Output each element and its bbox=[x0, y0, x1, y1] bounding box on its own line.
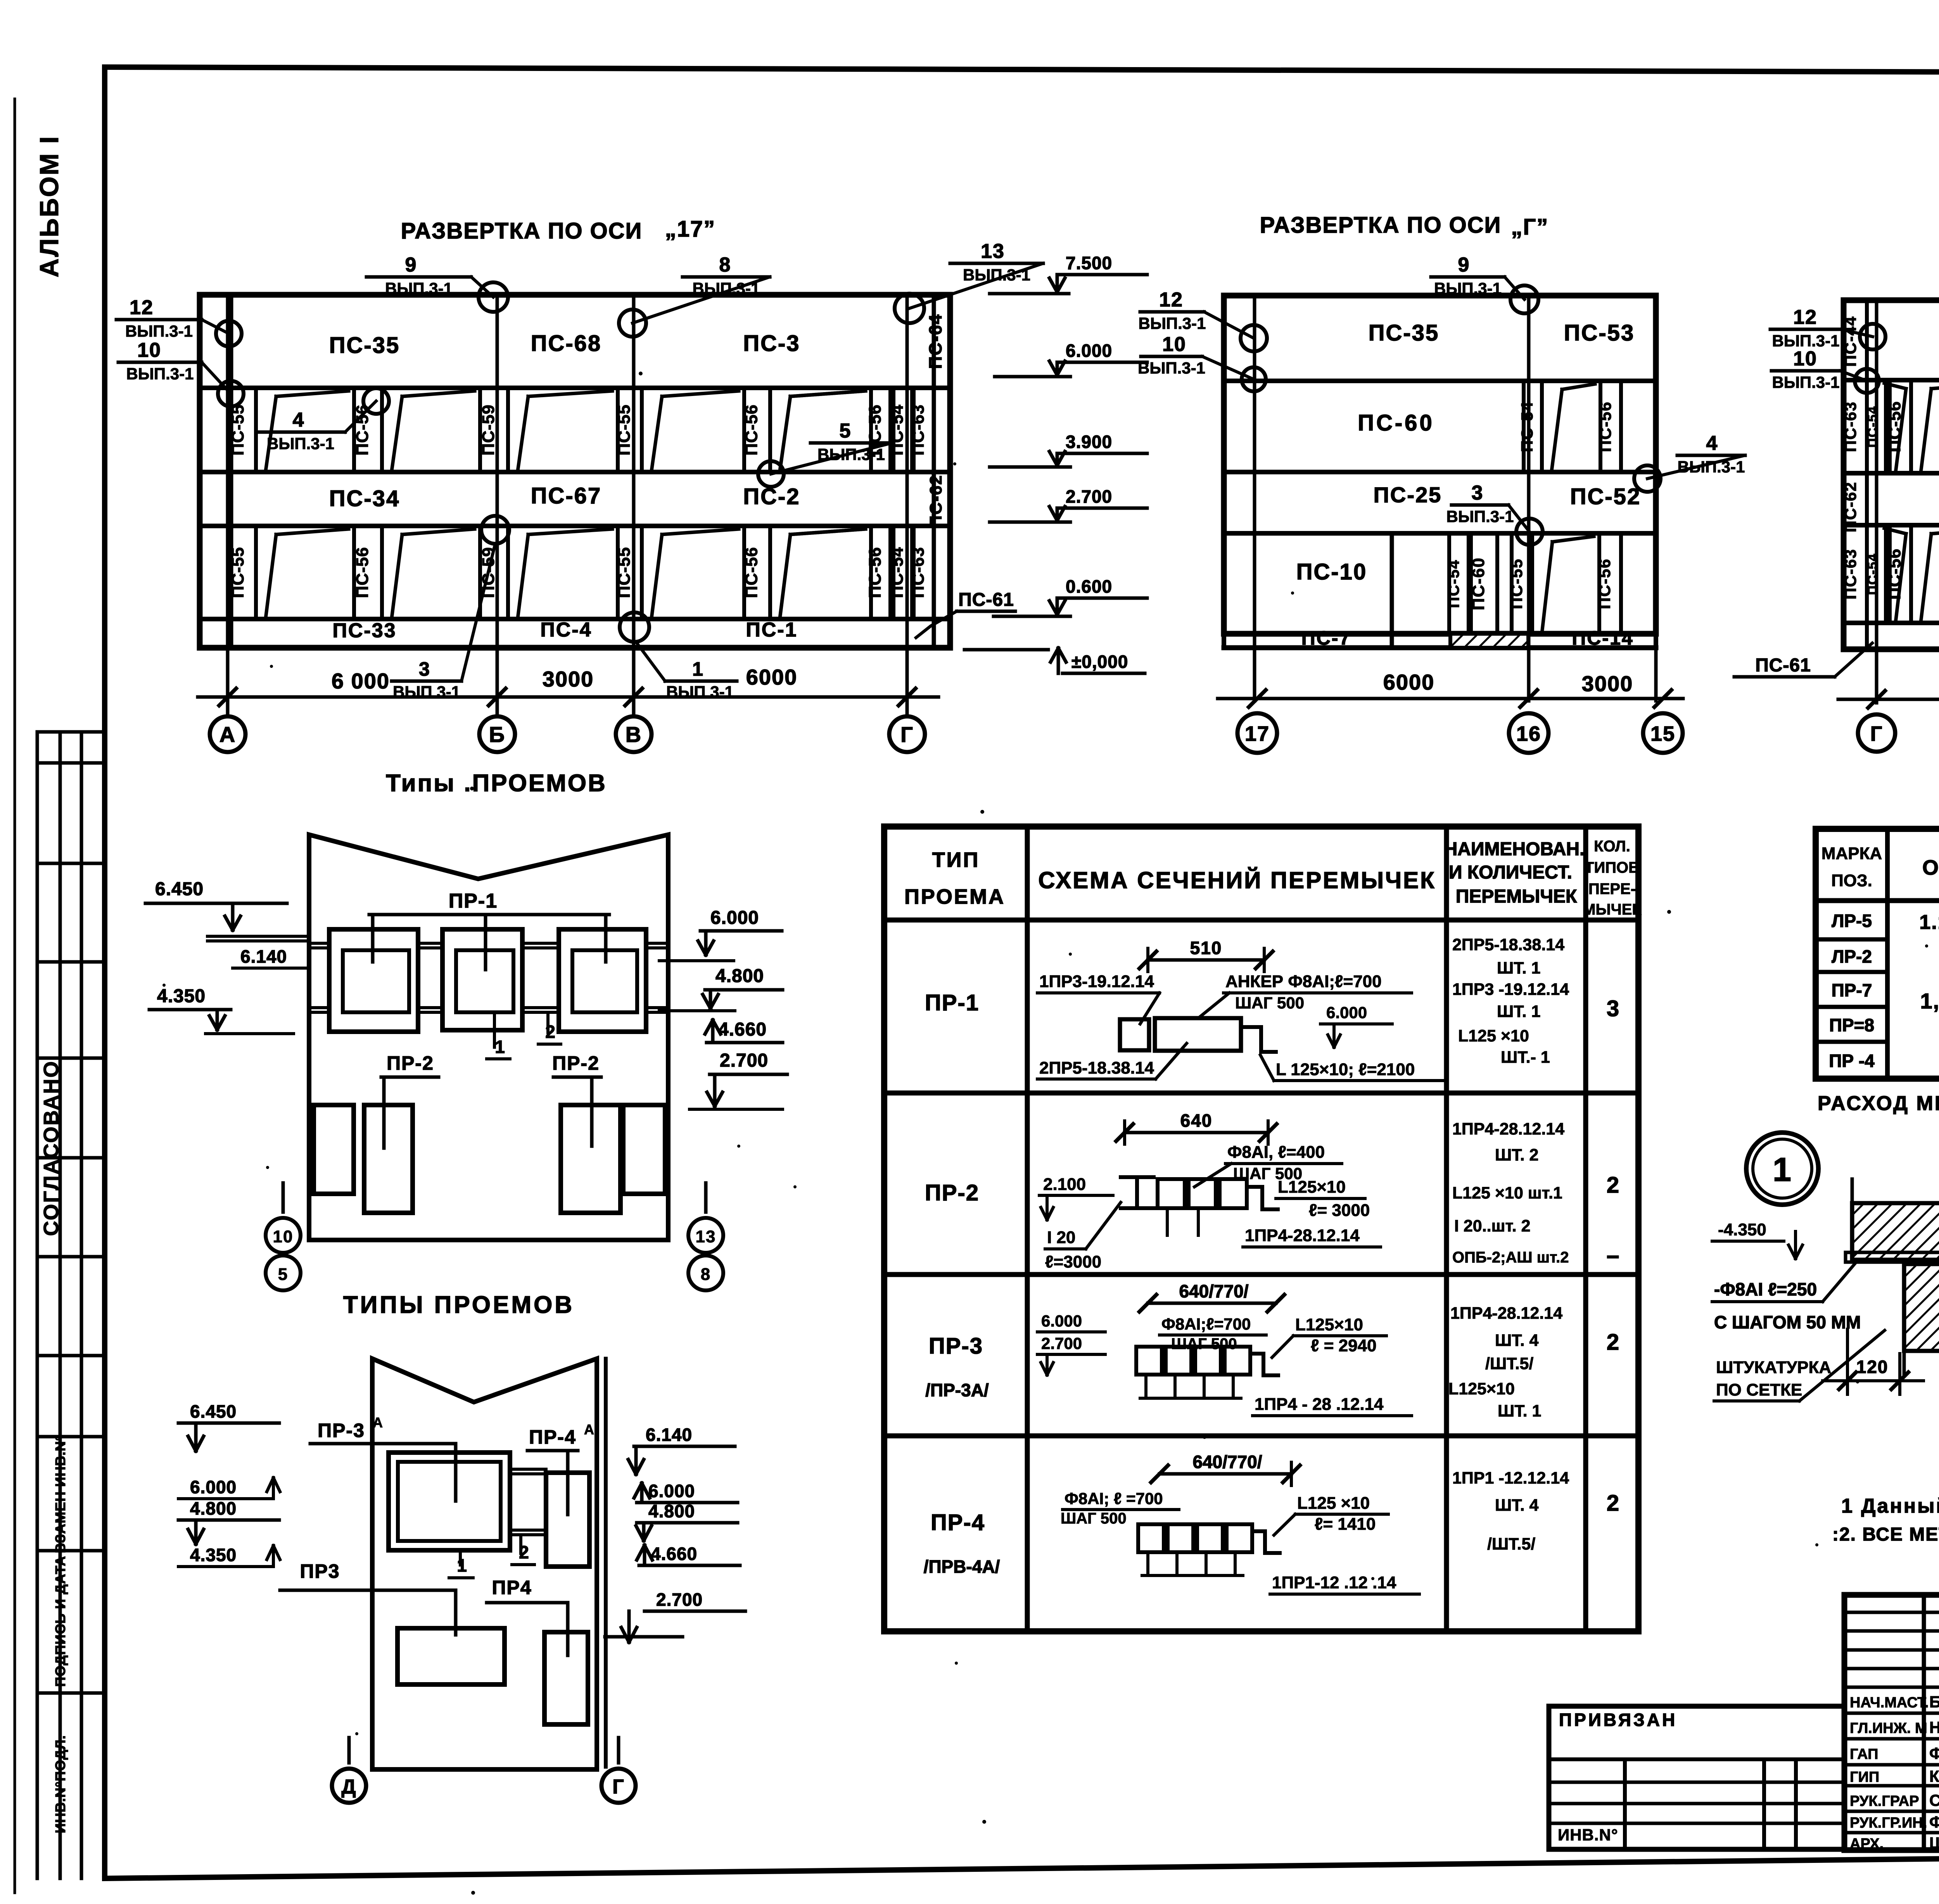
svg-text:ℓ= 3000: ℓ= 3000 bbox=[1309, 1201, 1370, 1220]
svg-text:ШТ. 1: ШТ. 1 bbox=[1498, 1402, 1541, 1420]
svg-text:ОПБ-2;АШ шт.2: ОПБ-2;АШ шт.2 bbox=[1452, 1249, 1569, 1266]
svg-text:КИРЮШКИН: КИРЮШКИН bbox=[1929, 1767, 1939, 1785]
svg-text:РАЗВЕРТКА ПО ОСИ: РАЗВЕРТКА ПО ОСИ bbox=[1260, 213, 1502, 238]
svg-text:АЛЬБОМ I: АЛЬБОМ I bbox=[35, 135, 64, 278]
door opening 1 bbox=[314, 1105, 354, 1194]
svg-text:10: 10 bbox=[1793, 348, 1817, 370]
svg-text:ШТ. 4: ШТ. 4 bbox=[1495, 1496, 1539, 1515]
svg-text:−: − bbox=[1606, 1244, 1620, 1269]
svg-text:ШТ.- 1: ШТ.- 1 bbox=[1501, 1048, 1550, 1067]
level lines 6.140 bbox=[207, 935, 308, 938]
specification table columns bbox=[1885, 829, 1890, 1079]
svg-text:Г: Г bbox=[900, 722, 914, 747]
svg-text:ПРОЕМА: ПРОЕМА bbox=[904, 885, 1005, 908]
svg-text:ПС-52: ПС-52 bbox=[1570, 484, 1641, 509]
svg-text:ПС-55: ПС-55 bbox=[228, 547, 247, 598]
svg-text:ПР-1: ПР-1 bbox=[449, 890, 498, 912]
svg-text:ПС-56: ПС-56 bbox=[742, 405, 761, 456]
svg-text:ПР-1: ПР-1 bbox=[925, 990, 979, 1015]
panel strip ПС-56 story2 bbox=[869, 388, 873, 472]
svg-text:ПС-61: ПС-61 bbox=[958, 590, 1014, 610]
svg-text:ШАГ 500: ШАГ 500 bbox=[1171, 1335, 1237, 1352]
panel strip ПС-59 story2 bbox=[478, 388, 482, 472]
panel strip left ПС-44 bbox=[1865, 300, 1869, 649]
ПР-2 dim 640 bbox=[1125, 1131, 1268, 1134]
window bay mark bbox=[1921, 534, 1931, 619]
svg-text:ВЗАМЕН ИНВ.N°: ВЗАМЕН ИНВ.N° bbox=[52, 1435, 68, 1553]
svg-text:1ПР4-28.12.14: 1ПР4-28.12.14 bbox=[1450, 1304, 1562, 1323]
svg-text:16: 16 bbox=[1516, 722, 1541, 745]
svg-text:3: 3 bbox=[419, 658, 430, 680]
svg-text:1ПР4-28.12.14: 1ПР4-28.12.14 bbox=[1245, 1226, 1360, 1245]
svg-text:ПС-53: ПС-53 bbox=[1564, 320, 1635, 346]
panel strip ПС-55 story1 bbox=[616, 526, 620, 619]
axis circle В bbox=[616, 716, 652, 752]
axis circle Г bbox=[889, 716, 925, 752]
svg-text:ВЫП.3-1: ВЫП.3-1 bbox=[1434, 279, 1502, 297]
svg-text:L125×10: L125×10 bbox=[1448, 1380, 1515, 1398]
window bay mark bbox=[780, 534, 790, 615]
svg-text:ПР-3: ПР-3 bbox=[929, 1333, 983, 1359]
panel strip ПС-55 story2 bbox=[229, 388, 233, 472]
svg-text:12: 12 bbox=[130, 296, 154, 319]
svg-text:2.700: 2.700 bbox=[720, 1050, 768, 1071]
ПР-4 dim 640/770 bbox=[1160, 1472, 1291, 1476]
svg-text:Ф8АI; ℓ =700: Ф8АI; ℓ =700 bbox=[1065, 1489, 1163, 1508]
svg-text:2ПР5-18.38.14: 2ПР5-18.38.14 bbox=[1452, 936, 1564, 954]
window bay mark bbox=[1552, 389, 1562, 468]
svg-text:ФРЕЙМАН: ФРЕЙМАН bbox=[1929, 1812, 1939, 1831]
svg-text:13: 13 bbox=[696, 1227, 716, 1246]
svg-text:ПР-4: ПР-4 bbox=[529, 1426, 576, 1448]
svg-text:ШАГ 500: ШАГ 500 bbox=[1235, 994, 1304, 1012]
svg-text:ПС-54: ПС-54 bbox=[1865, 406, 1880, 448]
door opening 3 bbox=[561, 1105, 620, 1213]
lintel lines bbox=[310, 942, 329, 945]
svg-text:ПС-60: ПС-60 bbox=[1469, 557, 1488, 610]
axis line Г bbox=[1875, 300, 1879, 703]
svg-text:10: 10 bbox=[137, 339, 161, 361]
svg-text:ПС-62: ПС-62 bbox=[1841, 481, 1860, 532]
svg-text:4.350: 4.350 bbox=[190, 1545, 237, 1565]
axis line А bbox=[226, 295, 230, 717]
axis tick 10/5 bbox=[282, 1183, 285, 1212]
svg-text:ПС-59: ПС-59 bbox=[479, 405, 498, 456]
elevation 2 bottom band bbox=[1224, 631, 1392, 636]
panel strip ПС-56 story2 bbox=[1888, 380, 1892, 473]
svg-text:1: 1 bbox=[457, 1555, 468, 1575]
svg-text:13: 13 bbox=[981, 240, 1005, 263]
svg-text:ТИПОВ: ТИПОВ bbox=[1585, 859, 1640, 876]
panel strip ПС-60 story1 bbox=[1469, 533, 1473, 634]
svg-text:1ПР1 -12.12.14: 1ПР1 -12.12.14 bbox=[1452, 1469, 1569, 1487]
svg-text:ЛР-5: ЛР-5 bbox=[1832, 911, 1872, 931]
svg-text:ПОЗ.: ПОЗ. bbox=[1831, 871, 1872, 890]
svg-text:6000: 6000 bbox=[1383, 670, 1435, 694]
svg-text:2ПР5-18.38.14: 2ПР5-18.38.14 bbox=[1039, 1058, 1154, 1077]
svg-text:ПР-3: ПР-3 bbox=[318, 1420, 365, 1441]
svg-text:ВЫП.3-1: ВЫП.3-1 bbox=[1138, 359, 1205, 377]
svg-text:ПС-25: ПС-25 bbox=[1374, 482, 1442, 507]
panel strip ПС-54 story1 bbox=[1447, 533, 1451, 634]
axis circle Г bbox=[601, 1769, 636, 1803]
window bay mark bbox=[1896, 389, 1906, 469]
svg-text:2.100: 2.100 bbox=[1043, 1175, 1086, 1194]
svg-text:ПС-61: ПС-61 bbox=[1755, 655, 1811, 676]
svg-text:6.000: 6.000 bbox=[648, 1481, 695, 1501]
svg-text:ПО СЕТКЕ: ПО СЕТКЕ bbox=[1716, 1380, 1802, 1399]
svg-text:/ПРВ-4А/: /ПРВ-4А/ bbox=[924, 1556, 1000, 1577]
svg-text:ПР-2: ПР-2 bbox=[552, 1052, 600, 1074]
svg-text:2.700: 2.700 bbox=[656, 1589, 703, 1610]
svg-text:ГАП: ГАП bbox=[1850, 1746, 1878, 1762]
window bay mark bbox=[780, 534, 790, 615]
svg-text:Ф8АI;ℓ=700: Ф8АI;ℓ=700 bbox=[1161, 1315, 1251, 1333]
svg-text:6 000: 6 000 bbox=[332, 669, 390, 693]
svg-text:ПС-63: ПС-63 bbox=[1841, 548, 1860, 599]
svg-text:6.000: 6.000 bbox=[1326, 1003, 1367, 1022]
axis line Г bbox=[906, 295, 909, 717]
detail circle 1 bbox=[1746, 1133, 1818, 1205]
svg-text:ПС-55: ПС-55 bbox=[228, 405, 247, 456]
svg-text:6.450: 6.450 bbox=[155, 879, 204, 899]
window bay mark bbox=[518, 396, 528, 468]
svg-text:А: А bbox=[373, 1415, 384, 1430]
svg-text:ИНВ.N°ПОДЛ.: ИНВ.N°ПОДЛ. bbox=[52, 1735, 68, 1833]
svg-text:ВЫП.3-1: ВЫП.3-1 bbox=[267, 434, 334, 453]
svg-text:6.000: 6.000 bbox=[190, 1477, 237, 1497]
svg-text:АРХ.: АРХ. bbox=[1850, 1836, 1884, 1852]
svg-text:ПС-55: ПС-55 bbox=[615, 547, 634, 598]
svg-text:6.000: 6.000 bbox=[1066, 341, 1112, 361]
window bay mark bbox=[1896, 534, 1906, 619]
panel strip ПС-63 story2 bbox=[912, 388, 916, 472]
привязан box bbox=[1549, 1706, 1844, 1849]
panel strip ПС-54 story2 bbox=[1522, 381, 1526, 472]
axis circle 10 bbox=[266, 1218, 301, 1253]
svg-text:1ПР4 - 28 .12.14: 1ПР4 - 28 .12.14 bbox=[1255, 1395, 1384, 1414]
svg-text:640: 640 bbox=[1180, 1110, 1213, 1131]
svg-text:ВЫП.3-1: ВЫП.3-1 bbox=[1446, 507, 1514, 526]
svg-text:ПС-67: ПС-67 bbox=[531, 483, 601, 508]
panel strip ПС-63 story1 bbox=[912, 526, 916, 619]
svg-text:АНКЕР Ф8АI;ℓ=700: АНКЕР Ф8АI;ℓ=700 bbox=[1225, 972, 1382, 991]
svg-text:6.140: 6.140 bbox=[646, 1425, 692, 1445]
axis circle Г bbox=[1858, 714, 1895, 752]
svg-text:ПР3: ПР3 bbox=[300, 1560, 340, 1582]
svg-text:ПС-56: ПС-56 bbox=[1595, 558, 1614, 609]
specification table frame bbox=[1816, 829, 1939, 1079]
lintel table frame bbox=[884, 827, 1638, 1631]
detail 1 shelf plate bbox=[1846, 1252, 1939, 1262]
window ПР-1 no.3 bbox=[559, 929, 646, 1032]
svg-text:5: 5 bbox=[840, 420, 852, 442]
title block verticals bbox=[1922, 1595, 1926, 1850]
axis line Б bbox=[496, 295, 499, 717]
svg-text:4.660: 4.660 bbox=[651, 1544, 697, 1564]
elevation 1 outline bbox=[200, 295, 950, 648]
svg-text:L125 ×10 шт.1: L125 ×10 шт.1 bbox=[1452, 1184, 1562, 1202]
ПР-3 dim 640/770 bbox=[1148, 1302, 1276, 1305]
window bay mark bbox=[392, 534, 402, 615]
axis line 16 bbox=[1527, 296, 1531, 701]
lower rect right bbox=[544, 1632, 588, 1724]
svg-text:ПС-1: ПС-1 bbox=[746, 619, 797, 641]
svg-text:ПР=8: ПР=8 bbox=[1829, 1015, 1874, 1035]
svg-text:ПЕРЕМЫЧЕК: ПЕРЕМЫЧЕК bbox=[1456, 886, 1577, 907]
svg-text:8: 8 bbox=[719, 254, 731, 276]
svg-text:120: 120 bbox=[1856, 1357, 1889, 1377]
svg-text:6000: 6000 bbox=[746, 665, 798, 689]
svg-text:ЛР-2: ЛР-2 bbox=[1832, 946, 1872, 967]
svg-text:ПС-62: ПС-62 bbox=[926, 475, 945, 528]
svg-text:ВЫП.3-1: ВЫП.3-1 bbox=[1138, 314, 1206, 332]
svg-text:1 Данный лист смотри совмес: 1 Данный лист смотри совместно с листами… bbox=[1841, 1495, 1939, 1517]
dimension line elevation 1 bbox=[198, 695, 938, 699]
svg-text:Б: Б bbox=[489, 722, 505, 747]
panel strip ПС-55 story1 bbox=[1510, 533, 1514, 634]
svg-text:±0,000: ±0,000 bbox=[1071, 652, 1128, 672]
svg-text:В: В bbox=[626, 722, 642, 747]
svg-text:3: 3 bbox=[1607, 996, 1620, 1021]
sheet outer edge left bbox=[14, 99, 16, 1893]
ПР-2 beam I20 section bbox=[1121, 1175, 1154, 1179]
svg-text:ПС-54: ПС-54 bbox=[888, 547, 907, 598]
svg-text:ГИП: ГИП bbox=[1850, 1769, 1879, 1785]
svg-text:ПР-7: ПР-7 bbox=[1832, 980, 1872, 1000]
svg-text:ПС-54: ПС-54 bbox=[1865, 553, 1880, 595]
svg-text:6.000: 6.000 bbox=[1041, 1312, 1082, 1330]
svg-text:С ШАГОМ 50 ММ: С ШАГОМ 50 ММ bbox=[1714, 1312, 1861, 1332]
svg-text:СОКОЛОВА: СОКОЛОВА bbox=[1929, 1791, 1939, 1809]
svg-text:10: 10 bbox=[1162, 333, 1186, 356]
detail 1 hatched wall lower bbox=[1904, 1264, 1939, 1351]
window bay mark bbox=[1542, 542, 1552, 630]
window bay mark bbox=[780, 396, 790, 468]
svg-text:СХЕМА СЕЧЕНИЙ ПЕРЕМЫЧЕК: СХЕМА СЕЧЕНИЙ ПЕРЕМЫЧЕК bbox=[1038, 867, 1436, 893]
axis tick Д bbox=[347, 1738, 351, 1763]
panel strip ПС-54 story1 bbox=[892, 526, 895, 619]
svg-text:Г: Г bbox=[1870, 722, 1883, 745]
panel strip ПС-56 story1 bbox=[352, 526, 356, 619]
svg-text:ШАГ 500: ШАГ 500 bbox=[1061, 1510, 1127, 1527]
door opening 2 bbox=[364, 1105, 413, 1213]
svg-text:ВЫП.3-1: ВЫП.3-1 bbox=[963, 266, 1030, 284]
elevation 1 left end column bbox=[229, 295, 233, 648]
window bay mark bbox=[652, 534, 662, 615]
window bay mark bbox=[518, 534, 528, 615]
svg-text:„17”: „17” bbox=[665, 216, 716, 242]
svg-text:ПС-54: ПС-54 bbox=[1518, 401, 1536, 452]
svg-text:ПС-10: ПС-10 bbox=[1296, 559, 1367, 585]
axis circle Д bbox=[332, 1769, 366, 1803]
svg-text:ПР-2: ПР-2 bbox=[925, 1180, 979, 1205]
margin column lines bbox=[36, 732, 39, 1878]
svg-text:6.450: 6.450 bbox=[190, 1401, 237, 1422]
svg-text:-4.350: -4.350 bbox=[1718, 1220, 1766, 1239]
detail 1 dim 120 bbox=[1846, 1329, 1849, 1394]
svg-text:ВЫП.3-1: ВЫП.3-1 bbox=[125, 322, 193, 340]
svg-text:ШТ. 1: ШТ. 1 bbox=[1497, 1002, 1540, 1021]
axis circle 15 bbox=[1643, 713, 1683, 753]
svg-text:ОБОЗНАЧЕНЦЕ: ОБОЗНАЧЕНЦЕ bbox=[1922, 856, 1939, 879]
svg-text:ПС-60: ПС-60 bbox=[1358, 410, 1434, 436]
svg-text:РАЗВЕРТКА ПО ОСИ: РАЗВЕРТКА ПО ОСИ bbox=[401, 218, 643, 244]
svg-text:МЫЧЕК: МЫЧЕК bbox=[1583, 901, 1642, 918]
panel strip ПС-56 story2 bbox=[742, 388, 746, 472]
svg-text:ИНВ.N°: ИНВ.N° bbox=[1558, 1826, 1618, 1844]
svg-text:ШИШКОВА: ШИШКОВА bbox=[1929, 1834, 1939, 1852]
dimension line elevation 2 bbox=[1218, 697, 1683, 700]
svg-text:9: 9 bbox=[405, 254, 417, 276]
elevation 3 outline bbox=[1844, 300, 1939, 649]
axis circle 13 bbox=[688, 1218, 723, 1253]
svg-text:ШТ. 2: ШТ. 2 bbox=[1495, 1146, 1538, 1164]
svg-text:ПС-55: ПС-55 bbox=[615, 405, 634, 456]
svg-text:ПС-44: ПС-44 bbox=[1841, 316, 1860, 367]
door opening 4 bbox=[623, 1105, 665, 1194]
ПР-1 dim 510 bbox=[1148, 958, 1264, 962]
svg-text:ПС-14: ПС-14 bbox=[1572, 627, 1633, 649]
svg-text:1ПР4-28.12.14: 1ПР4-28.12.14 bbox=[1452, 1120, 1564, 1138]
svg-text:-Ф8АI ℓ=250: -Ф8АI ℓ=250 bbox=[1714, 1279, 1817, 1299]
svg-text:ПС-3: ПС-3 bbox=[743, 331, 800, 356]
svg-text:ПС-54: ПС-54 bbox=[1445, 559, 1462, 608]
svg-text:ВЫП.3-1: ВЫП.3-1 bbox=[1772, 373, 1839, 391]
svg-text:/ШТ.5/: /ШТ.5/ bbox=[1487, 1535, 1535, 1553]
svg-text:ПС-35: ПС-35 bbox=[329, 333, 400, 358]
svg-text:ПС-4: ПС-4 bbox=[540, 619, 592, 641]
svg-text:3: 3 bbox=[1472, 482, 1484, 504]
svg-text:1: 1 bbox=[1773, 1151, 1792, 1188]
svg-text:640/770/: 640/770/ bbox=[1192, 1452, 1262, 1472]
svg-text:/ШТ.5/: /ШТ.5/ bbox=[1485, 1354, 1533, 1373]
panel strip ПС-56 story1 bbox=[869, 526, 873, 619]
svg-text:А: А bbox=[584, 1422, 595, 1437]
svg-text:9: 9 bbox=[1458, 254, 1470, 276]
svg-text:ПЕРЕ-: ПЕРЕ- bbox=[1588, 880, 1636, 898]
svg-text:6.140: 6.140 bbox=[240, 946, 287, 967]
svg-text:ФИЛИППОВ: ФИЛИППОВ bbox=[1929, 1744, 1939, 1762]
svg-text:2: 2 bbox=[1607, 1172, 1620, 1198]
lower rect center bbox=[397, 1628, 505, 1684]
svg-text:3.900: 3.900 bbox=[1066, 432, 1112, 452]
svg-text:ℓ=3000: ℓ=3000 bbox=[1045, 1252, 1101, 1271]
svg-text:17: 17 bbox=[1245, 722, 1270, 745]
svg-text:640/770/: 640/770/ bbox=[1179, 1281, 1248, 1301]
svg-text:ВЫП.3-1: ВЫП.3-1 bbox=[1677, 458, 1745, 476]
window ПР-1 no.1 bbox=[329, 929, 418, 1032]
svg-text:1: 1 bbox=[692, 658, 704, 680]
svg-text:4: 4 bbox=[1706, 432, 1718, 455]
svg-text:ПС-64: ПС-64 bbox=[925, 314, 945, 369]
axis line 15 bbox=[1654, 648, 1658, 701]
svg-text:6.000: 6.000 bbox=[710, 908, 759, 928]
sheet frame bbox=[105, 67, 1939, 74]
svg-text:7.500: 7.500 bbox=[1066, 253, 1112, 273]
svg-text:1,138-10: 1,138-10 bbox=[1920, 989, 1939, 1013]
panel strip ПС-55 story2 bbox=[616, 388, 620, 472]
svg-text:L125×10: L125×10 bbox=[1278, 1178, 1346, 1197]
svg-text:МАРКА: МАРКА bbox=[1821, 844, 1882, 863]
opening types plan 2 outline bbox=[372, 1359, 597, 1769]
svg-text:4: 4 bbox=[293, 409, 305, 431]
svg-text:ПРИВЯЗАН: ПРИВЯЗАН bbox=[1559, 1710, 1677, 1730]
svg-text:4.800: 4.800 bbox=[190, 1498, 237, 1518]
svg-text:ПС-56: ПС-56 bbox=[866, 547, 885, 598]
svg-text:СОГЛАСОВАНО: СОГЛАСОВАНО bbox=[40, 1060, 63, 1236]
svg-text:И КОЛИЧЕСТ.: И КОЛИЧЕСТ. bbox=[1449, 862, 1572, 883]
svg-text:0.600: 0.600 bbox=[1066, 576, 1112, 597]
dimension line elevation 3 bbox=[1838, 698, 1939, 701]
svg-text:ПС-63: ПС-63 bbox=[909, 405, 928, 456]
svg-text:ПС-55: ПС-55 bbox=[1507, 558, 1526, 609]
svg-text:5: 5 bbox=[278, 1265, 288, 1284]
svg-text:ПОДПИСЬ И ДАТА: ПОДПИСЬ И ДАТА bbox=[52, 1556, 68, 1687]
svg-text:/ПР-3А/: /ПР-3А/ bbox=[925, 1380, 989, 1400]
svg-text:ПС-56: ПС-56 bbox=[742, 547, 761, 598]
lintel lines bbox=[510, 1468, 546, 1471]
elevation 2 outline bbox=[1224, 296, 1656, 634]
axis circle 16 bbox=[1509, 713, 1548, 753]
svg-text:I 20: I 20 bbox=[1047, 1228, 1075, 1247]
ПР-4 beam section bbox=[1138, 1524, 1164, 1552]
svg-text:8: 8 bbox=[701, 1265, 711, 1284]
title block revision rows bbox=[1844, 1611, 1939, 1614]
svg-text:А: А bbox=[219, 722, 236, 747]
window bay mark bbox=[266, 534, 276, 615]
panel ПС-10 outline bbox=[1390, 533, 1394, 634]
panel strip ПС-56 story1 bbox=[1597, 533, 1601, 634]
svg-text:ПС-7: ПС-7 bbox=[1301, 627, 1351, 649]
svg-text:РУК.ГР.ИН.: РУК.ГР.ИН. bbox=[1850, 1815, 1927, 1831]
svg-text:ВЫП.3-1: ВЫП.3-1 bbox=[1772, 332, 1839, 350]
svg-text:L125 ×10: L125 ×10 bbox=[1458, 1027, 1529, 1045]
panel strip ПС-63 left story2 bbox=[1884, 380, 1888, 473]
panel strip ПС-54 story2 bbox=[892, 388, 895, 472]
svg-text:4.350: 4.350 bbox=[157, 986, 206, 1006]
panel strip ПС-56 story2 bbox=[352, 388, 356, 472]
title block signature rows bbox=[1844, 1712, 1939, 1715]
window upper bbox=[389, 1453, 510, 1550]
svg-text:4.800: 4.800 bbox=[715, 966, 764, 986]
svg-text:НАИМЕНОВАН.: НАИМЕНОВАН. bbox=[1444, 839, 1585, 859]
svg-text:15: 15 bbox=[1650, 722, 1675, 745]
svg-text:1: 1 bbox=[495, 1037, 506, 1057]
svg-text:ПР-4: ПР-4 bbox=[931, 1510, 985, 1535]
svg-text:4.660: 4.660 bbox=[718, 1019, 767, 1040]
svg-text:Д: Д bbox=[341, 1776, 356, 1798]
panel strip ПС-55 story1 bbox=[229, 526, 233, 619]
svg-text:РУК.ГРАР: РУК.ГРАР bbox=[1850, 1793, 1919, 1809]
svg-text:ГЛ.ИНЖ. М: ГЛ.ИНЖ. М bbox=[1850, 1720, 1927, 1736]
window bay mark bbox=[392, 396, 402, 468]
svg-text:3000: 3000 bbox=[1582, 671, 1633, 696]
svg-text:510: 510 bbox=[1190, 938, 1222, 958]
title block frame bbox=[1844, 1595, 1939, 1850]
window right bbox=[546, 1473, 589, 1567]
svg-text:НАЧ.МАСТ.: НАЧ.МАСТ. bbox=[1850, 1695, 1929, 1711]
ПР-1 beam section bbox=[1120, 1019, 1149, 1050]
svg-text:„Г”: „Г” bbox=[1511, 214, 1549, 240]
svg-text:ПР-2: ПР-2 bbox=[387, 1052, 434, 1074]
svg-text:ПС-34: ПС-34 bbox=[329, 486, 400, 511]
panel strip ПС-63 left story1 bbox=[1884, 525, 1888, 623]
svg-text:2.700: 2.700 bbox=[1066, 486, 1112, 507]
svg-text:1ПР3-19.12.14: 1ПР3-19.12.14 bbox=[1039, 972, 1154, 991]
axis line В bbox=[632, 295, 636, 717]
svg-text:ПР -4: ПР -4 bbox=[1829, 1051, 1875, 1071]
